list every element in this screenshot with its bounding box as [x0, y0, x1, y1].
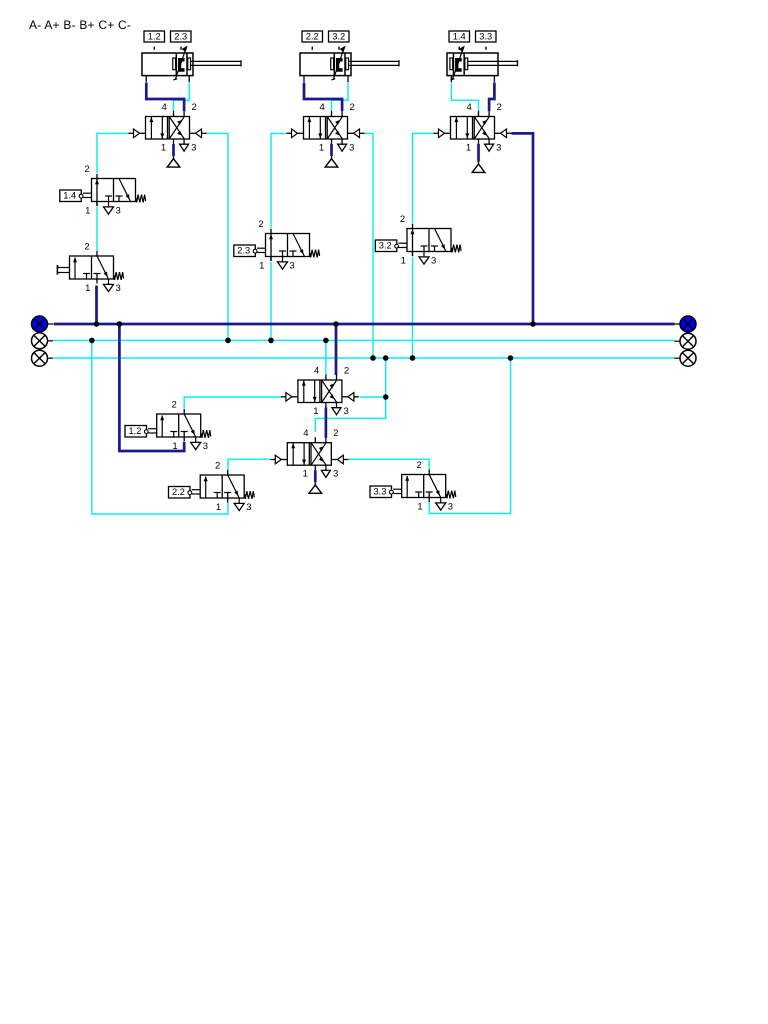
svg-text:2.2: 2.2 [306, 32, 319, 42]
svg-text:2.2: 2.2 [172, 487, 185, 497]
junction line1 / valve 1.1 pilot [225, 338, 231, 344]
junction supply bus / valve 3.1 pilot [530, 321, 536, 327]
cylinder B with position markers 2.2 / 3.2 (extended) [300, 31, 399, 82]
wire valve 3.2 port 1 down to manifold line 2 [412, 257, 414, 358]
svg-text:1: 1 [319, 142, 324, 153]
svg-text:1.2: 1.2 [128, 426, 141, 436]
svg-text:1: 1 [85, 205, 90, 216]
svg-text:2: 2 [84, 242, 89, 253]
svg-text:1.2: 1.2 [148, 32, 161, 42]
compressed air source right (pressurized) [674, 316, 696, 332]
junction line1 / valve 2.2 loop [89, 338, 95, 344]
svg-text:3.2: 3.2 [379, 241, 392, 251]
svg-text:3: 3 [290, 260, 295, 271]
wire plunger valve port 1 to supply bus (pressurized) [95, 286, 98, 325]
wire group valve 0.1 right pilot to junction [360, 396, 386, 398]
svg-text:3.2: 3.2 [332, 32, 345, 42]
wire valve 2.1 right pilot down to manifold line 2 [365, 133, 374, 358]
wire manifold line 2 [54, 357, 675, 359]
junction line2 / valve 2.1 pilot [370, 355, 376, 361]
wire cyl1 right port to valve 1.1 port 4 [174, 83, 190, 112]
svg-text:1: 1 [85, 283, 90, 294]
junction supply bus / valve 1.2 feed [117, 321, 123, 327]
group valve 0.2 4/2-way double pilot [270, 428, 348, 493]
valve 1.2 3/2-way roller (rest) [125, 400, 211, 452]
wire junction down to group valve 0.2 port 4 [315, 397, 385, 432]
svg-text:4: 4 [319, 102, 324, 113]
junction line2 / group pilot junction [383, 355, 389, 361]
wire manifold line 1 [54, 339, 675, 341]
wire valve 2.3 port 2 to valve 2.1 left pilot [271, 133, 287, 228]
title text sequence A- A+ B- B+ C+ C- [29, 18, 131, 32]
wire group valve 0.2 left pilot to valve 2.2 port 2 [228, 459, 270, 470]
junction group pilot node [383, 394, 389, 400]
valve 2.3 3/2-way roller (actuated) [234, 219, 320, 271]
junction line1 / group valve 0.1 port 4 [323, 338, 329, 344]
valve 2.1 4/2-way double pilot [287, 102, 365, 167]
wire valve 1.2 port 2 to group valve 0.1 left pilot [184, 397, 281, 409]
line 1 connector left [32, 333, 54, 349]
valve 3.3 3/2-way roller (rest) [370, 460, 456, 512]
svg-text:1: 1 [161, 142, 166, 153]
group valve 0.1 4/2-way double pilot [281, 365, 359, 416]
wire junction up to manifold line 2 [385, 358, 387, 397]
svg-text:3: 3 [496, 142, 501, 153]
junction line1 / valve 2.3 port 1 [268, 338, 274, 344]
svg-text:3.3: 3.3 [479, 32, 492, 42]
svg-text:3: 3 [448, 501, 453, 512]
svg-text:3: 3 [191, 142, 196, 153]
svg-text:3: 3 [333, 469, 338, 480]
valve 3.1 4/2-way double pilot [434, 102, 512, 172]
svg-text:1: 1 [216, 502, 221, 513]
svg-text:4: 4 [314, 365, 319, 376]
svg-text:1.4: 1.4 [453, 32, 466, 42]
compressed air source left (pressurized) [32, 316, 54, 332]
line 1 connector right [674, 333, 696, 349]
svg-text:2: 2 [84, 164, 89, 175]
wire supply bus to valve 1.2 port 1 (pressurized) [119, 324, 184, 451]
cylinder A with position markers 1.2 / 2.3 (extended) [142, 31, 241, 82]
wire valve 1.1 right pilot down to manifold line 1 [207, 133, 229, 340]
wire cyl3 right port to valve 3.1 port 2 (pressurized) [489, 83, 494, 112]
wire group valve 0.2 port 2 to group valve 0.1 port 1 (pressurized) [325, 408, 328, 438]
svg-text:A- A+ B- B+ C+ C-: A- A+ B- B+ C+ C- [29, 18, 131, 32]
svg-text:2.3: 2.3 [237, 246, 250, 256]
svg-text:4: 4 [303, 428, 308, 439]
svg-text:2: 2 [400, 214, 405, 225]
wire group valve 0.1 port 4 up to manifold line 1 [325, 340, 327, 374]
svg-text:1: 1 [466, 142, 471, 153]
svg-text:3.3: 3.3 [373, 487, 386, 497]
valve plunger 3/2-way (rest) [57, 242, 123, 294]
wire valve 3.1 right pilot to supply bus (pressurized) [512, 133, 534, 324]
wire valve 1.4 port 2 to valve 1.1 left pilot [97, 133, 129, 173]
line 2 connector left [32, 350, 54, 366]
wire supply bus to group valve 0.1 port 2 (pressurized) [335, 324, 338, 375]
wire valve 3.3 port 1 loop to manifold line 2 [429, 358, 510, 514]
wire supply bus (pressurized) [54, 323, 675, 326]
wire cyl2 left port to valve 2.1 port 2 (pressurized) [304, 83, 342, 112]
wire valve 3.2 port 2 to valve 3.1 left pilot [413, 133, 434, 223]
line 2 connector right [674, 350, 696, 366]
svg-text:1: 1 [401, 255, 406, 266]
junction line2 / valve 3.3 loop [508, 355, 514, 361]
svg-text:2: 2 [191, 102, 196, 113]
svg-text:2: 2 [172, 400, 177, 411]
wire valve 2.2 port 1 loop to manifold line 1 [92, 340, 228, 514]
valve 1.1 4/2-way double pilot [129, 102, 207, 167]
svg-text:1: 1 [303, 469, 308, 480]
svg-text:2: 2 [496, 102, 501, 113]
wire valve 1.4 port 1 to plunger valve port 2 [96, 207, 98, 252]
svg-text:3: 3 [116, 283, 121, 294]
wire cyl3 left port to valve 3.1 port 4 [451, 83, 478, 112]
svg-text:2: 2 [349, 102, 354, 113]
wire valve 2.3 port 1 down to manifold line 1 [270, 262, 272, 340]
valve 3.2 3/2-way roller (actuated) [375, 214, 461, 266]
svg-text:3: 3 [349, 142, 354, 153]
valve 1.4 3/2-way roller (actuated) [60, 164, 146, 216]
junction supply bus / plunger valve [94, 321, 100, 327]
svg-text:3: 3 [203, 441, 208, 452]
wire group valve 0.2 right pilot to valve 3.3 port 2 [348, 459, 429, 469]
svg-text:2: 2 [258, 219, 263, 230]
svg-text:3: 3 [116, 205, 121, 216]
svg-text:1: 1 [313, 406, 318, 417]
svg-text:2.3: 2.3 [174, 32, 187, 42]
svg-text:3: 3 [246, 502, 251, 513]
svg-text:4: 4 [161, 102, 166, 113]
svg-text:2: 2 [417, 460, 422, 471]
junction supply bus / group valve 0.1 port 2 [333, 321, 339, 327]
svg-text:4: 4 [466, 102, 471, 113]
svg-text:3: 3 [344, 406, 349, 417]
svg-text:1: 1 [417, 501, 422, 512]
svg-text:3: 3 [431, 255, 436, 266]
svg-text:2: 2 [333, 428, 338, 439]
svg-text:2: 2 [344, 365, 349, 376]
svg-text:1.4: 1.4 [63, 191, 76, 201]
valve 2.2 3/2-way roller (rest) [169, 461, 255, 513]
wire cyl1 left port to valve 1.1 port 2 (pressurized) [146, 83, 184, 112]
svg-text:1: 1 [172, 441, 177, 452]
cylinder C with position markers 1.4 / 3.3 (retracted) [447, 31, 518, 82]
svg-text:2: 2 [215, 461, 220, 472]
svg-text:1: 1 [259, 260, 264, 271]
wire cyl2 right port to valve 2.1 port 4 [332, 83, 349, 112]
junction line2 / valve 3.2 port 1 [410, 355, 416, 361]
